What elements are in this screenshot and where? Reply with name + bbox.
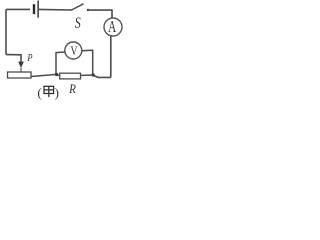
wire node B to resistor bbox=[81, 74, 94, 76]
rheostat P box bbox=[8, 72, 32, 78]
battery B1 short plate (negative) bbox=[33, 4, 35, 14]
resistor R box bbox=[60, 73, 81, 79]
svg-text:(: ( bbox=[37, 85, 41, 100]
ammeter U1 circle bbox=[104, 18, 122, 36]
switch S right contact dot bbox=[87, 9, 89, 11]
svg-text:A: A bbox=[108, 18, 117, 37]
wire left side vertical bbox=[5, 9, 7, 54]
wire ammeter down right side bbox=[110, 36, 112, 78]
wire switch to top-right corner, down to ammeter bbox=[88, 10, 112, 18]
switch S blade bbox=[72, 4, 84, 10]
voltmeter right leg wire bbox=[82, 50, 93, 75]
wire bottom right segment bbox=[93, 75, 111, 77]
wire battery to switch bbox=[39, 8, 72, 11]
wire resistor to node A bbox=[57, 74, 60, 77]
svg-text:S: S bbox=[75, 16, 81, 33]
wire node A to rheostat bbox=[31, 74, 56, 76]
svg-text:P: P bbox=[27, 52, 33, 64]
voltmeter left leg wire bbox=[56, 52, 65, 75]
svg-text:V: V bbox=[70, 45, 77, 58]
wire top-left horizontal bbox=[6, 8, 30, 10]
wire to rheostat slider bbox=[6, 55, 21, 62]
battery B1 long plate (positive) bbox=[37, 1, 39, 18]
svg-text:): ) bbox=[55, 85, 59, 100]
switch S pivot dot bbox=[71, 9, 73, 11]
rheostat P slider arrow head bbox=[18, 62, 24, 68]
voltmeter U2 circle bbox=[65, 42, 82, 59]
node B junction dot bbox=[91, 73, 94, 76]
svg-text:R: R bbox=[68, 81, 76, 96]
caption character jia bbox=[44, 86, 54, 97]
node A junction dot bbox=[55, 73, 58, 76]
